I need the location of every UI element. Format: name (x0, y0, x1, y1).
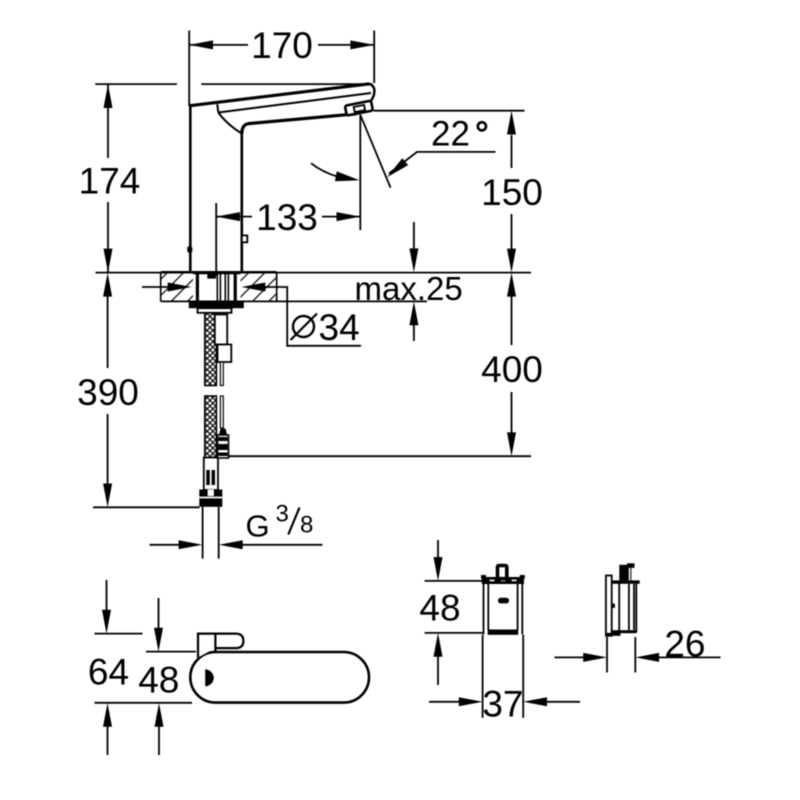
box outer sides (483, 579, 485, 635)
outlet tube (202, 507, 204, 559)
aerator (tilted) (345, 101, 373, 116)
dim 37: extension lines (482, 635, 484, 718)
mounting flange (189, 301, 244, 308)
hose end fitting (204, 458, 218, 491)
svg-text:170: 170 (251, 25, 313, 66)
side top flange (612, 580, 640, 583)
dim 170: extension line right (373, 31, 375, 84)
faucet spout step (217, 104, 218, 112)
dim 48 top view: arrows (158, 598, 160, 629)
dim 390: dimension line + arrows (103, 273, 112, 297)
faucet neck left curve (218, 113, 242, 134)
dim 170: dimension line + arrows (189, 44, 248, 46)
counter hatching left (162, 274, 194, 301)
faucet spout bottom edge (242, 114, 357, 134)
dim diameter 34: text (293, 316, 314, 337)
dim 26: extension lines (606, 637, 608, 673)
dim 48 box: bottom reference line (425, 632, 483, 634)
faucet spout inner top line (218, 93, 371, 113)
washer (198, 308, 232, 313)
faucet spout tip curve (370, 84, 375, 101)
dim diameter 34: right arrow + leader (242, 283, 266, 292)
side body verticals (618, 581, 620, 633)
hose nut (199, 490, 222, 507)
sensor bump on right edge (242, 235, 248, 242)
dim 133: dimension line + arrows (216, 216, 252, 218)
svg-text:400: 400 (481, 349, 543, 390)
aerator bump top view (198, 634, 243, 658)
spout top view capsule (190, 652, 369, 703)
counter hatching right (241, 274, 276, 301)
svg-text:48: 48 (419, 588, 460, 629)
solenoid valve stem (215, 315, 227, 345)
dim 64: bottom reference line (95, 702, 193, 704)
dim 26: arrows (555, 656, 586, 658)
dim diameter 34: left arrow (142, 286, 170, 288)
box logo (498, 598, 509, 604)
svg-text:37: 37 (482, 683, 523, 724)
bracket foot (606, 633, 621, 636)
dim max.25: bottom arrow (409, 302, 418, 326)
box top bar (482, 577, 524, 584)
dim 37: arrows (429, 701, 460, 703)
svg-text:150: 150 (481, 172, 543, 213)
dim G3/8: dimension line + arrows (150, 544, 181, 546)
svg-text:8: 8 (300, 512, 313, 539)
svg-text:64: 64 (88, 651, 129, 692)
braided hose upper (205, 313, 217, 386)
box corner nubs (481, 575, 486, 579)
dim 48 box: top reference line (425, 580, 483, 582)
dim max.25: top arrow (413, 222, 415, 250)
box bottom bar (488, 630, 519, 635)
dim 400: bottom reference line (229, 455, 531, 457)
bracket tick (612, 604, 615, 608)
dim 174: vertical dimension line + arrows (107, 84, 109, 158)
dim 48 box: arrows (437, 540, 439, 558)
bracket plate (606, 576, 612, 636)
dim 390: bottom reference line (93, 506, 200, 508)
faucet body right edge (241, 132, 244, 273)
svg-text:G: G (246, 508, 270, 543)
dim 150: dimension line + arrows (511, 135, 513, 168)
counter cross-section box (160, 273, 162, 302)
svg-text:174: 174 (79, 161, 141, 202)
dim 64: arrows (106, 580, 108, 611)
dim 48 top view: reference line (146, 651, 196, 653)
clip mark on left edge (187, 246, 192, 252)
mounting shank (196, 273, 199, 302)
svg-text:133: 133 (256, 197, 318, 238)
sensor cable (220, 362, 223, 386)
svg-text:3: 3 (276, 500, 289, 527)
svg-text:34: 34 (319, 307, 360, 348)
ref line at spout tip level (95, 83, 177, 85)
counter bottom line (161, 300, 427, 302)
outlet vertical reference line (359, 115, 361, 230)
arc arrow (311, 163, 338, 177)
faucet body left edge (189, 105, 192, 272)
label 22 leader (389, 152, 496, 174)
dim 64: top reference line (95, 633, 143, 635)
cable plug (219, 429, 227, 436)
svg-text:22: 22 (431, 115, 470, 154)
faucet spout top edge (189, 84, 370, 106)
sensor window (205, 669, 214, 686)
dim 170: extension line left (188, 31, 190, 107)
counter top line (96, 272, 532, 274)
side bottom bar (612, 630, 637, 633)
svg-text:26: 26 (664, 623, 705, 664)
dim 400: dimension line + arrows (507, 273, 516, 297)
svg-text:48: 48 (138, 660, 179, 701)
22 deg flow line (360, 115, 390, 188)
svg-text:390: 390 (77, 372, 139, 413)
box connector (498, 566, 507, 579)
dim 133: extension line (215, 203, 217, 276)
side connector (619, 565, 631, 581)
dim 150: top reference line (374, 110, 525, 112)
braided hose lower (205, 396, 217, 458)
